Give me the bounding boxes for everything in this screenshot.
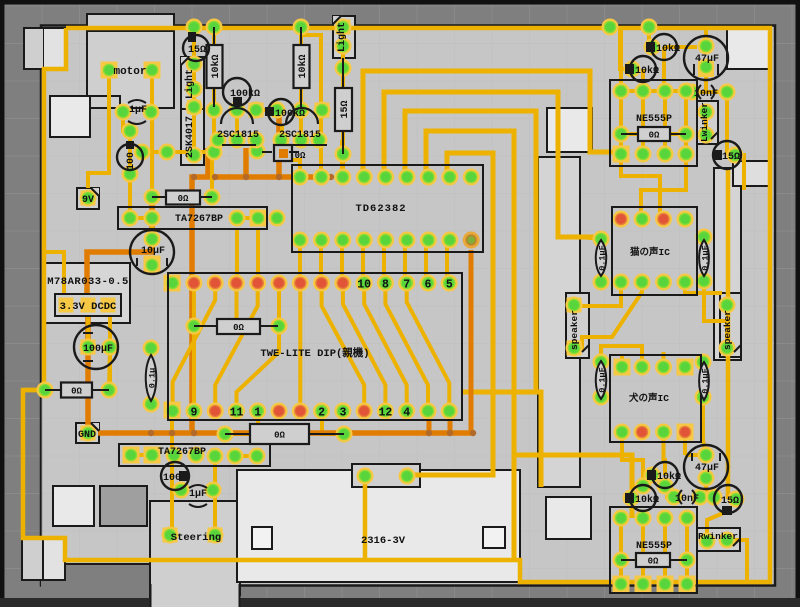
svg-text:M78AR033-0.5: M78AR033-0.5 (47, 276, 129, 288)
svg-text:47µF: 47µF (695, 54, 719, 65)
svg-text:7: 7 (403, 279, 410, 292)
svg-text:TA7267BP: TA7267BP (158, 447, 206, 458)
svg-text:2SC1815: 2SC1815 (279, 130, 321, 141)
svg-text:100kΩ: 100kΩ (230, 88, 260, 100)
svg-text:speaker: speaker (722, 310, 733, 350)
svg-text:0Ω: 0Ω (233, 323, 244, 333)
svg-text:47µF: 47µF (695, 463, 719, 474)
svg-text:2316-3V: 2316-3V (361, 535, 406, 547)
svg-text:9V: 9V (82, 195, 94, 206)
svg-text:TWE-LITE DIP(親機): TWE-LITE DIP(親機) (260, 346, 369, 360)
svg-text:犬の声IC: 犬の声IC (628, 392, 669, 404)
svg-text:0Ω: 0Ω (274, 431, 285, 441)
svg-text:100: 100 (126, 152, 137, 170)
svg-text:10kΩ: 10kΩ (635, 494, 659, 506)
svg-text:Light: Light (336, 22, 348, 52)
svg-text:0Ω: 0Ω (649, 131, 660, 141)
svg-text:TA7267BP: TA7267BP (175, 214, 223, 225)
svg-text:Rwinker: Rwinker (698, 531, 738, 542)
svg-text:5: 5 (446, 279, 453, 292)
svg-text:100: 100 (163, 473, 181, 484)
svg-text:3: 3 (339, 407, 346, 420)
svg-text:2SK4017: 2SK4017 (185, 116, 196, 158)
svg-text:0.1µF: 0.1µF (701, 368, 711, 394)
svg-text:4: 4 (403, 407, 410, 420)
svg-text:15Ω: 15Ω (340, 100, 351, 118)
svg-text:TD62382: TD62382 (355, 203, 406, 215)
svg-text:Steering: Steering (171, 532, 221, 544)
svg-text:100µF: 100µF (83, 344, 113, 355)
svg-text:1µF: 1µF (189, 489, 207, 500)
svg-text:15Ω: 15Ω (188, 45, 206, 56)
svg-text:10kΩ: 10kΩ (635, 65, 659, 77)
svg-text:0.1µ: 0.1µ (148, 368, 158, 388)
svg-text:GND: GND (78, 430, 96, 441)
svg-text:0Ω: 0Ω (648, 557, 659, 567)
svg-text:2: 2 (318, 407, 325, 420)
svg-text:NE555P: NE555P (636, 114, 672, 125)
svg-text:10kΩ: 10kΩ (210, 54, 222, 78)
svg-text:11: 11 (230, 407, 244, 420)
svg-text:2SC1815: 2SC1815 (217, 130, 259, 141)
svg-text:1µF: 1µF (129, 105, 147, 116)
svg-text:6: 6 (425, 279, 432, 292)
svg-text:10kΩ: 10kΩ (297, 54, 309, 78)
svg-text:speaker: speaker (569, 310, 580, 350)
svg-text:9: 9 (190, 407, 197, 420)
svg-text:NE555P: NE555P (636, 541, 672, 552)
svg-text:8: 8 (382, 279, 389, 292)
svg-text:0Ω: 0Ω (178, 194, 189, 204)
svg-text:猫の声IC: 猫の声IC (630, 246, 670, 258)
svg-text:0Ω: 0Ω (71, 387, 82, 397)
svg-text:3.3V DCDC: 3.3V DCDC (60, 301, 117, 313)
svg-text:0.1µF: 0.1µF (598, 245, 608, 271)
svg-text:10kΩ: 10kΩ (657, 471, 681, 483)
svg-text:Lwinker: Lwinker (699, 102, 710, 142)
svg-text:motor: motor (113, 66, 146, 78)
svg-text:10µF: 10µF (141, 246, 165, 257)
svg-text:10: 10 (357, 279, 371, 292)
svg-text:0.1µF: 0.1µF (701, 245, 711, 271)
svg-text:15Ω: 15Ω (722, 152, 740, 163)
svg-text:10kΩ: 10kΩ (656, 43, 680, 55)
svg-text:1: 1 (254, 407, 261, 420)
svg-text:15Ω: 15Ω (721, 496, 739, 507)
svg-text:0.1µF: 0.1µF (598, 367, 608, 393)
svg-text:Light: Light (184, 69, 196, 99)
svg-text:12: 12 (378, 407, 392, 420)
